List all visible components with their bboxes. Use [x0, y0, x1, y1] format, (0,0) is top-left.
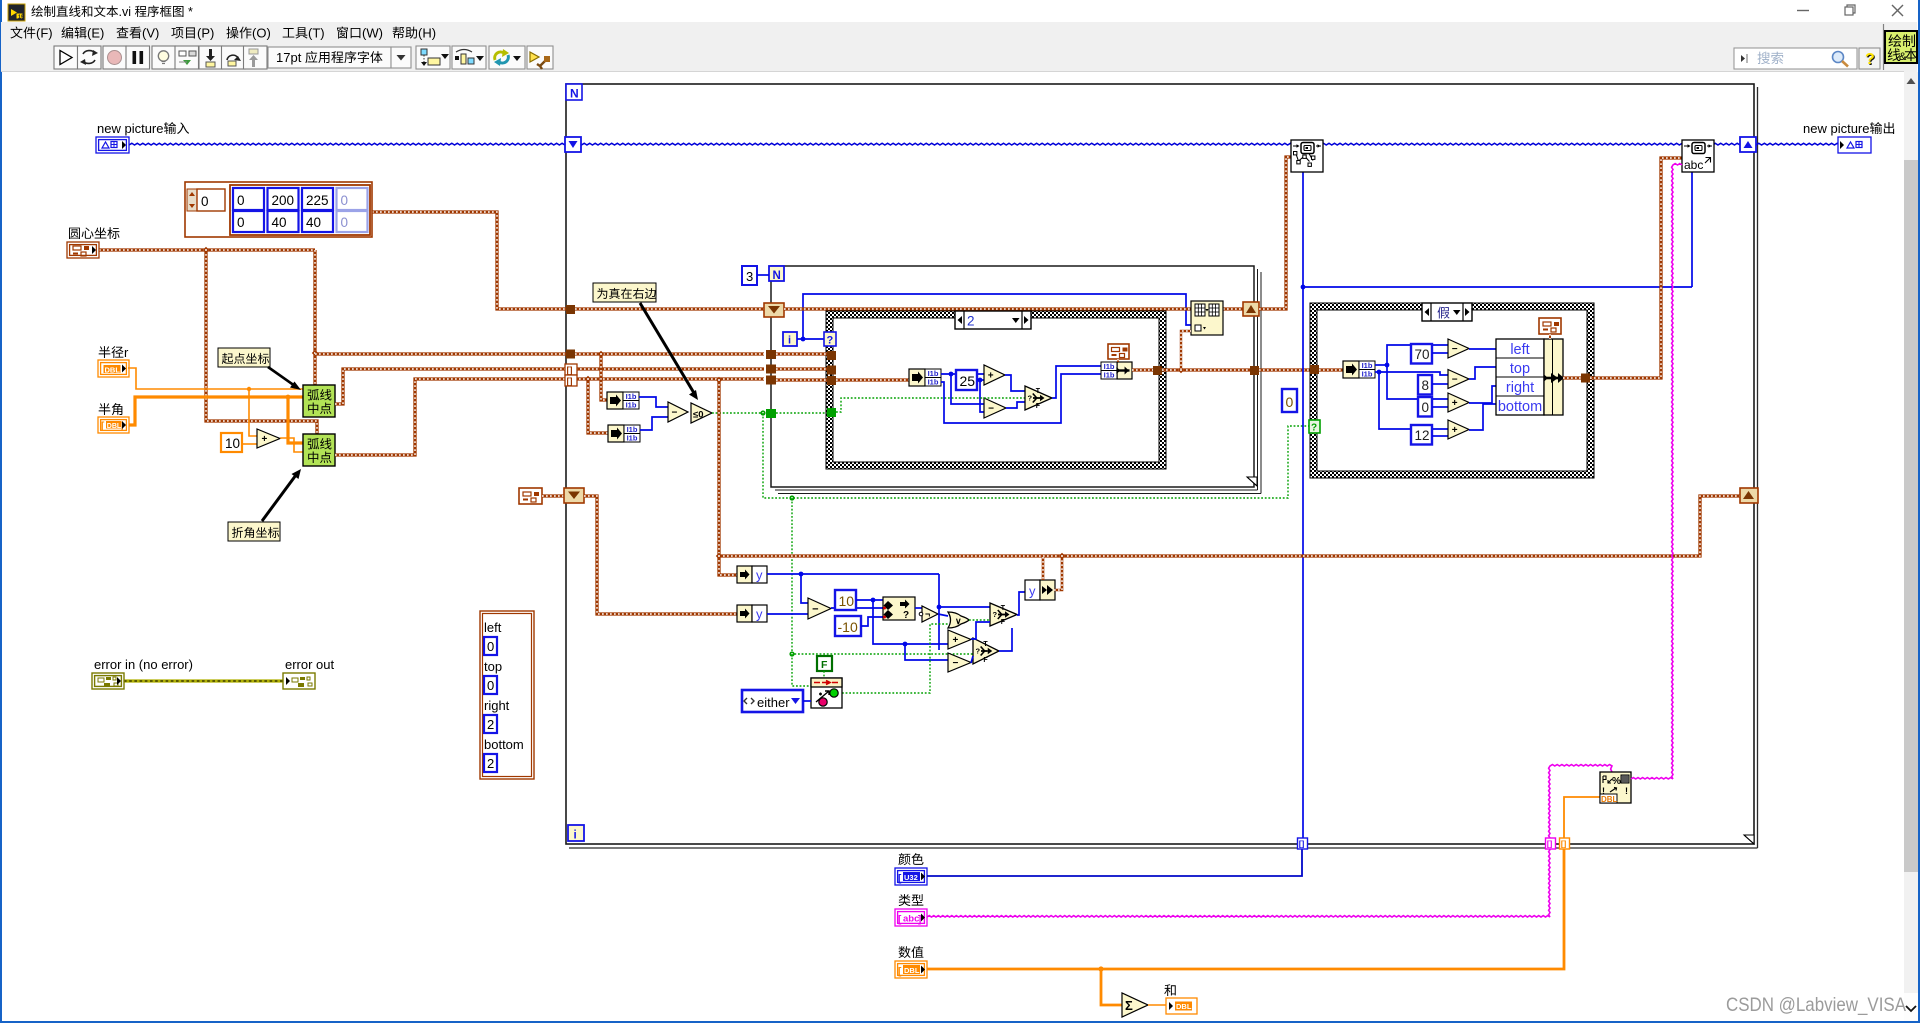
svg-text:DBL: DBL: [1601, 795, 1618, 804]
svg-text:?: ?: [1028, 394, 1033, 403]
svg-text:(O): (O): [252, 26, 271, 41]
svg-text:*: *: [185, 5, 193, 19]
svg-text:0: 0: [237, 193, 245, 208]
svg-text:F: F: [1036, 403, 1041, 410]
svg-text:−: −: [988, 404, 994, 415]
svg-text:?: ?: [976, 647, 981, 656]
svg-text:−: −: [1452, 375, 1458, 386]
svg-text:I1b: I1b: [626, 400, 637, 409]
svg-text:?: ?: [993, 610, 998, 619]
svg-text:0: 0: [201, 194, 209, 209]
svg-text:T: T: [1001, 605, 1006, 612]
svg-text:+: +: [261, 434, 267, 445]
svg-text:(E): (E): [87, 26, 104, 41]
svg-text:right: right: [1506, 380, 1534, 396]
svg-text:−: −: [952, 658, 958, 669]
svg-text:top: top: [484, 659, 502, 674]
svg-text:≤0: ≤0: [693, 410, 704, 421]
svg-text:bottom: bottom: [1498, 399, 1542, 415]
svg-text:2: 2: [967, 314, 975, 329]
svg-text:(P): (P): [197, 26, 214, 41]
svg-text:abc: abc: [903, 914, 919, 925]
svg-text:0: 0: [1422, 400, 1430, 415]
svg-text:200: 200: [272, 193, 295, 208]
svg-text:%: %: [1612, 776, 1621, 787]
svg-text:8: 8: [1422, 378, 1430, 393]
svg-text:I1b: I1b: [1104, 370, 1115, 379]
svg-text:r: r: [124, 345, 129, 360]
svg-text:DBL: DBL: [904, 966, 920, 975]
svg-text:i: i: [788, 335, 791, 347]
svg-text:[]: []: [567, 376, 573, 386]
svg-text:0: 0: [487, 678, 494, 693]
svg-text:15: 15: [18, 15, 24, 21]
svg-text:?: ?: [1865, 51, 1875, 68]
svg-text:70: 70: [1415, 347, 1430, 362]
svg-text:.vi: .vi: [119, 5, 135, 19]
svg-text:N: N: [773, 270, 781, 282]
svg-text:10: 10: [839, 593, 855, 609]
svg-text:abc: abc: [1684, 158, 1703, 172]
svg-text:DBL: DBL: [105, 365, 121, 374]
svg-text:?: ?: [827, 335, 834, 347]
svg-text:top: top: [1510, 361, 1530, 377]
svg-text:y: y: [1029, 584, 1036, 599]
svg-text:bottom: bottom: [484, 737, 524, 752]
svg-text:+: +: [1452, 398, 1458, 409]
svg-text:−: −: [812, 603, 818, 615]
svg-text:3: 3: [746, 269, 753, 284]
svg-text:[]: []: [1561, 839, 1567, 849]
svg-text:I1b: I1b: [1362, 369, 1373, 378]
svg-text:y: y: [756, 568, 763, 583]
svg-text:left: left: [1510, 342, 1529, 358]
svg-text:F: F: [983, 657, 988, 664]
svg-text:(H): (H): [418, 26, 436, 41]
svg-text:error out: error out: [285, 657, 335, 672]
svg-text:(V): (V): [142, 26, 159, 41]
svg-text:Σ: Σ: [1125, 998, 1133, 1013]
svg-text:T: T: [983, 641, 988, 648]
svg-text:DBL: DBL: [1176, 1002, 1192, 1011]
svg-text:&: &: [1899, 51, 1907, 63]
svg-text:?: ?: [903, 610, 909, 621]
svg-text:[]: []: [567, 365, 573, 375]
svg-text:(W): (W): [362, 26, 383, 41]
svg-text:17pt: 17pt: [276, 50, 305, 65]
svg-text:]: ]: [918, 915, 921, 926]
svg-text:i: i: [574, 830, 577, 842]
svg-text:10: 10: [225, 436, 240, 451]
svg-text:[]: []: [1299, 839, 1305, 849]
svg-text:(T): (T): [308, 26, 325, 41]
svg-text:0: 0: [341, 193, 349, 208]
svg-text:−: −: [1452, 344, 1458, 355]
svg-text:!: !: [1625, 786, 1628, 796]
svg-text:error in (no error): error in (no error): [94, 657, 193, 672]
svg-text:0: 0: [1286, 394, 1294, 410]
svg-text:225: 225: [306, 193, 329, 208]
svg-text:new picture: new picture: [97, 121, 163, 136]
svg-text:12: 12: [1415, 428, 1430, 443]
svg-text:U32: U32: [904, 873, 918, 882]
svg-text:¬: ¬: [925, 609, 930, 619]
svg-text:0: 0: [341, 215, 349, 230]
svg-text:40: 40: [272, 215, 287, 230]
svg-text:∨: ∨: [955, 616, 962, 626]
svg-text:25: 25: [960, 373, 976, 389]
svg-text:+: +: [988, 371, 994, 382]
svg-text:-10: -10: [838, 619, 858, 635]
svg-text:0: 0: [487, 639, 494, 654]
svg-text:+: +: [1452, 425, 1458, 436]
svg-text:y: y: [756, 607, 763, 622]
svg-text:T: T: [1036, 388, 1041, 395]
svg-text:F: F: [1001, 619, 1006, 626]
svg-text:−: −: [671, 408, 677, 419]
svg-text:CSDN @Labview_VISA: CSDN @Labview_VISA: [1726, 994, 1906, 1016]
svg-text:0: 0: [237, 215, 245, 230]
svg-text:40: 40: [306, 215, 321, 230]
svg-text:?: ?: [1311, 423, 1317, 434]
svg-text:[]: []: [1547, 839, 1553, 849]
svg-text:new picture: new picture: [1803, 121, 1869, 136]
svg-text:N: N: [570, 87, 579, 101]
svg-text:left: left: [484, 620, 502, 635]
svg-text:I1b: I1b: [928, 377, 939, 386]
svg-text:(F): (F): [36, 26, 53, 41]
svg-text:+: +: [952, 635, 958, 646]
svg-text:either: either: [757, 695, 790, 710]
svg-text:I1b: I1b: [627, 433, 638, 442]
svg-text:2: 2: [487, 756, 494, 771]
svg-text:2: 2: [487, 717, 494, 732]
svg-text:right: right: [484, 698, 510, 713]
svg-text:F: F: [821, 659, 828, 671]
